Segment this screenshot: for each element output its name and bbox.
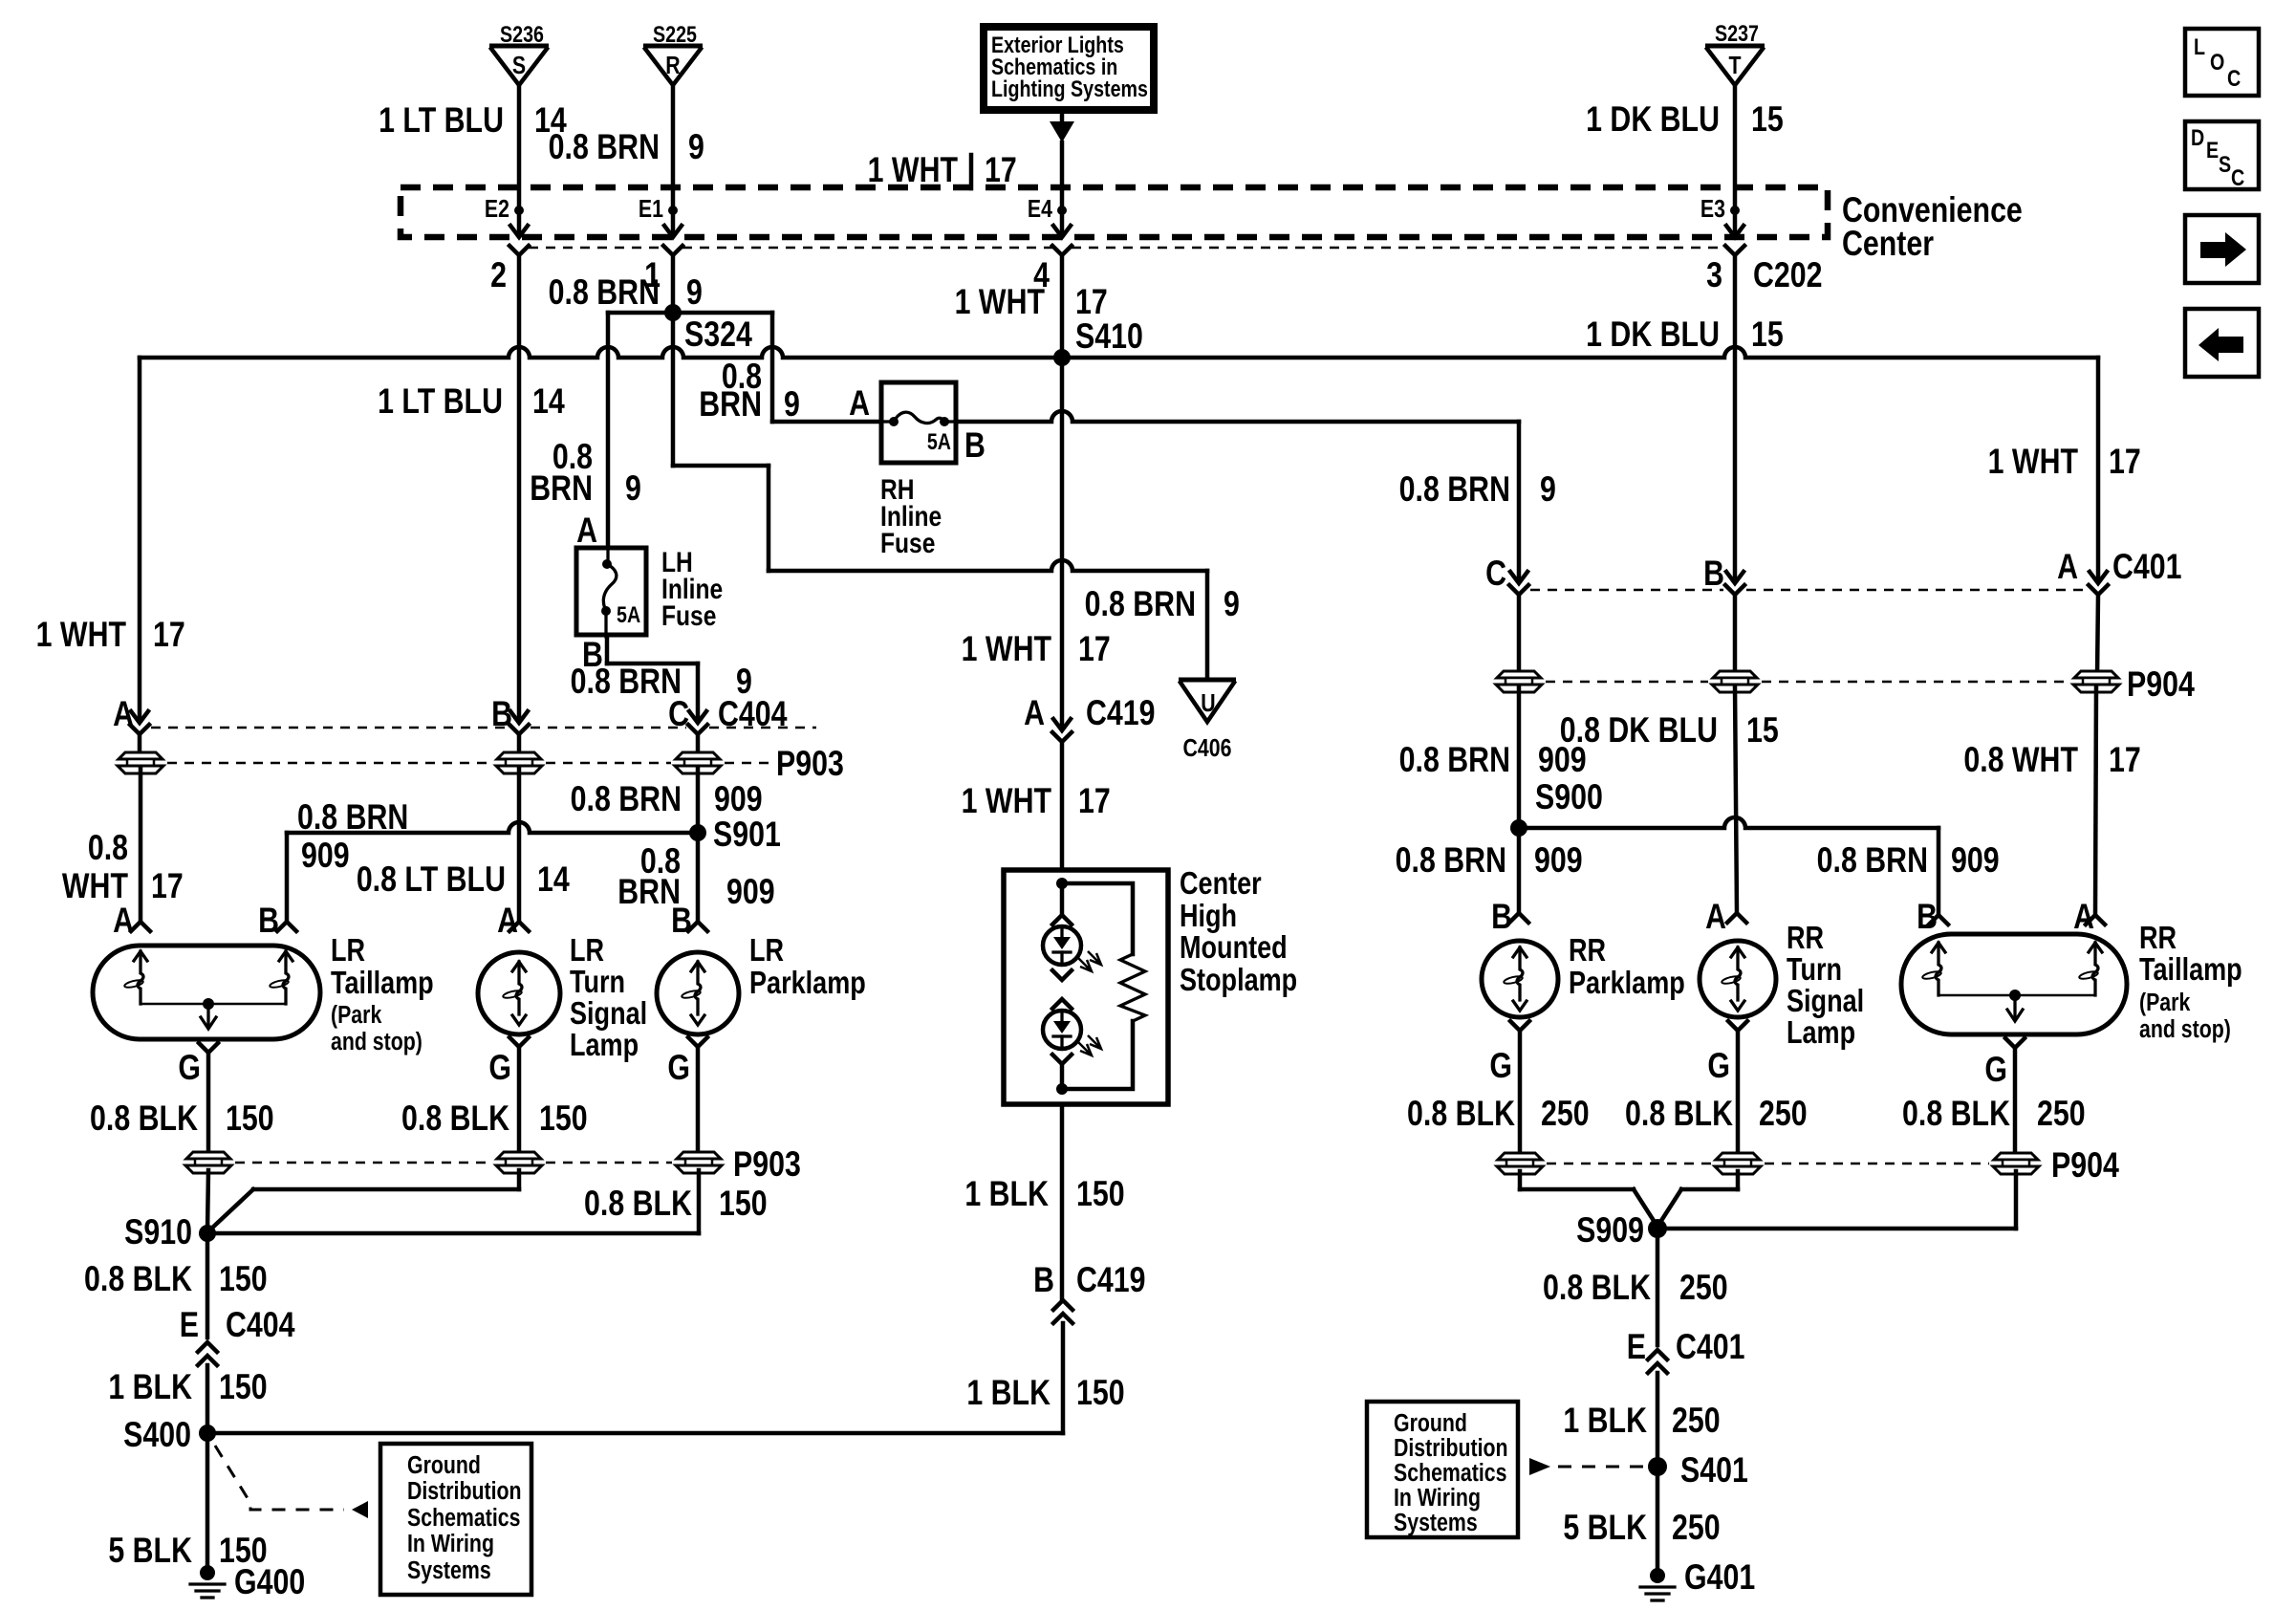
svg-text:Taillamp: Taillamp (2139, 953, 2242, 988)
svg-text:Mounted: Mounted (1180, 931, 1288, 966)
wire WHT to RR tail A (2095, 685, 2096, 915)
svg-text:Signal: Signal (570, 997, 647, 1032)
svg-text:0.8 BRN: 0.8 BRN (1085, 584, 1196, 624)
svg-text:250: 250 (1679, 1268, 1728, 1308)
wire S400 ground run (207, 1431, 1063, 1436)
svg-text:0.8 BRN: 0.8 BRN (1396, 840, 1506, 881)
svg-text:14: 14 (532, 381, 565, 422)
svg-text:0.8 BLK: 0.8 BLK (90, 1099, 198, 1139)
svg-text:1 WHT: 1 WHT (962, 629, 1052, 669)
svg-text:9: 9 (625, 468, 641, 509)
svg-text:150: 150 (539, 1099, 588, 1139)
wire LR park gnd jog (697, 1170, 702, 1233)
wire RR park gnd jog (1518, 1171, 1523, 1189)
svg-text:Fuse: Fuse (880, 527, 935, 559)
svg-text:17: 17 (1078, 629, 1111, 669)
splice S900 (1510, 819, 1527, 837)
wire WHT to LR taillamp A (139, 769, 143, 922)
svg-text:14: 14 (537, 859, 570, 900)
svg-text:1 LT BLU: 1 LT BLU (379, 100, 504, 141)
svg-text:250: 250 (1672, 1401, 1721, 1441)
svg-text:Schematics: Schematics (407, 1504, 520, 1533)
svg-text:0.8 BLK: 0.8 BLK (1902, 1094, 2010, 1134)
CHMSL resistor branch (1062, 883, 1133, 954)
grommet P903 B (496, 752, 542, 773)
svg-text:C401: C401 (1676, 1327, 1745, 1367)
svg-text:9: 9 (784, 384, 800, 424)
splice S410 (1053, 349, 1071, 366)
svg-text:C401: C401 (2112, 547, 2182, 587)
svg-text:15: 15 (1751, 315, 1784, 355)
svg-text:S909: S909 (1576, 1210, 1644, 1251)
svg-text:1 DK BLU: 1 DK BLU (1586, 99, 1720, 140)
svg-text:0.8 BLK: 0.8 BLK (1543, 1268, 1651, 1308)
svg-text:150: 150 (219, 1259, 268, 1299)
svg-text:0.8 BRN: 0.8 BRN (1817, 840, 1928, 881)
wire BRN to S900 (1517, 685, 1522, 826)
wire WHT E4 down to C419-A (1060, 255, 1065, 356)
grommet P904 tail gnd (1993, 1153, 2039, 1174)
svg-text:G401: G401 (1684, 1557, 1755, 1598)
svg-text:C419: C419 (1076, 1260, 1146, 1300)
svg-text:B: B (1703, 554, 1724, 594)
legend LOC box (2185, 29, 2259, 96)
svg-text:0.8 BRN: 0.8 BRN (571, 662, 682, 702)
svg-text:1 BLK: 1 BLK (1563, 1401, 1647, 1441)
svg-text:S237: S237 (1715, 20, 1759, 46)
svg-text:B: B (671, 901, 692, 941)
svg-text:17: 17 (151, 866, 184, 906)
lamp LR Taillamp right bulb (279, 951, 292, 961)
svg-text:0.8 BLK: 0.8 BLK (1625, 1094, 1733, 1134)
wire S901 down to LR parklamp (696, 835, 701, 922)
fuse RH inline 5A (881, 382, 956, 463)
svg-text:909: 909 (1538, 740, 1587, 780)
wire RR turn gnd jog (1736, 1171, 1741, 1189)
ground G401 (1650, 1568, 1665, 1583)
triangle connector S236 (S) (489, 44, 549, 49)
wire CHMSL gnd down (1060, 1104, 1065, 1298)
svg-text:High: High (1180, 900, 1237, 934)
svg-text:17: 17 (2109, 740, 2141, 780)
wire WHT bus (140, 347, 2098, 358)
connector C202 chevron pin 1 (663, 246, 682, 255)
svg-text:B: B (1033, 1260, 1054, 1300)
svg-text:(Park: (Park (331, 1001, 382, 1030)
svg-text:In Wiring: In Wiring (407, 1530, 494, 1558)
svg-text:0.8 BLK: 0.8 BLK (584, 1184, 692, 1224)
svg-text:1 WHT: 1 WHT (962, 781, 1052, 821)
svg-text:and stop): and stop) (331, 1028, 422, 1056)
wire A to grommet (138, 734, 142, 757)
reference dashed arrow (left) (215, 1446, 344, 1510)
svg-text:Turn: Turn (1787, 953, 1842, 988)
svg-text:S225: S225 (653, 21, 697, 47)
grommet P903 tail gnd (185, 1152, 231, 1173)
svg-text:0.8 BLK: 0.8 BLK (1407, 1094, 1515, 1134)
lamp RR Taillamp right bulb (2089, 943, 2102, 952)
svg-text:S910: S910 (124, 1212, 192, 1252)
CHMSL mid chevrons (1052, 970, 1072, 980)
wire S900 down to RR park (1517, 830, 1522, 913)
svg-text:A: A (113, 901, 134, 941)
wire C401-B to grommet (1733, 595, 1738, 677)
svg-text:Distribution: Distribution (407, 1477, 522, 1506)
wire S324 right branch down (770, 313, 775, 422)
wire LH fuse output (605, 635, 610, 664)
svg-text:S900: S900 (1535, 777, 1603, 817)
lamp RR Parklamp (1482, 941, 1558, 1017)
svg-text:A: A (1024, 693, 1045, 733)
svg-text:C: C (2227, 65, 2241, 91)
svg-text:250: 250 (2037, 1094, 2086, 1134)
triangle connector S237 (T) (1705, 44, 1765, 49)
Convenience Center box (401, 187, 1828, 237)
svg-text:909: 909 (1951, 840, 2000, 881)
svg-text:17: 17 (985, 150, 1017, 190)
pin chevron RR tail A (2086, 915, 2105, 925)
wire WHT to CHMSL (1060, 742, 1065, 866)
svg-text:Systems: Systems (407, 1556, 491, 1585)
svg-text:150: 150 (1076, 1174, 1125, 1214)
pin chevron LR taillamp A (131, 922, 150, 931)
legend right arrow box (2185, 215, 2259, 283)
Ground Distribution box (left) (380, 1444, 531, 1595)
svg-text:Stoplamp: Stoplamp (1180, 964, 1297, 998)
wire C to grommet (696, 734, 701, 757)
svg-text:Systems: Systems (1394, 1509, 1478, 1537)
svg-text:1 BLK: 1 BLK (966, 1373, 1051, 1413)
wire LR tail gnd to S910 (207, 1170, 208, 1231)
lamp RR Taillamp common (1939, 994, 2095, 997)
svg-text:Parklamp: Parklamp (749, 967, 866, 1001)
svg-text:L: L (2194, 33, 2205, 59)
pin chevron LR parklamp G (688, 1037, 707, 1047)
svg-text:Turn: Turn (570, 966, 625, 1000)
svg-text:250: 250 (1759, 1094, 1808, 1134)
CHMSL LED 2 (1043, 1011, 1081, 1049)
Ground Distribution box (right) (1367, 1402, 1518, 1537)
grommet P904 park gnd (1497, 1153, 1543, 1174)
Exterior Lights Schematics reference box (984, 27, 1154, 110)
CHMSL top node (1056, 878, 1068, 889)
svg-text:LR: LR (749, 934, 784, 968)
wire S909 down (1656, 1229, 1660, 1345)
svg-text:0.8 BRN: 0.8 BRN (571, 779, 682, 819)
svg-text:3: 3 (1706, 255, 1722, 295)
svg-text:S400: S400 (123, 1415, 191, 1455)
svg-text:0.8 BLK: 0.8 BLK (84, 1259, 192, 1299)
svg-text:G: G (1489, 1046, 1512, 1086)
wire LR turn gnd jog (517, 1170, 522, 1189)
svg-text:Center: Center (1180, 867, 1262, 902)
svg-text:Signal: Signal (1787, 985, 1864, 1019)
connector C202 chevron pin 2 (509, 246, 529, 255)
pin chevron RR park B (1509, 913, 1528, 923)
svg-text:P903: P903 (733, 1144, 801, 1185)
svg-text:150: 150 (719, 1184, 768, 1224)
svg-text:U: U (1201, 689, 1215, 718)
svg-text:C404: C404 (226, 1305, 295, 1345)
svg-text:5A: 5A (617, 601, 640, 627)
svg-text:150: 150 (219, 1367, 268, 1407)
svg-text:BRN: BRN (699, 384, 762, 424)
svg-text:250: 250 (1672, 1508, 1721, 1548)
svg-text:909: 909 (301, 836, 350, 876)
wire S400 down to G400 (206, 1433, 210, 1567)
connector C401 dashed line (1530, 589, 1723, 592)
wire S900 crossbar (1519, 817, 1939, 828)
svg-text:9: 9 (688, 127, 704, 167)
svg-text:E4: E4 (1028, 195, 1053, 224)
wire C401-A to grommet (2097, 595, 2098, 677)
svg-text:1 WHT: 1 WHT (868, 150, 959, 190)
wire WHT left branch down (138, 358, 142, 721)
svg-text:O: O (2210, 49, 2224, 75)
svg-text:E3: E3 (1700, 195, 1725, 224)
CHMSL bottom chevron (1052, 1055, 1072, 1064)
svg-text:A: A (1705, 897, 1726, 937)
svg-text:A: A (497, 901, 518, 941)
splice S324 (664, 304, 682, 321)
wire WHT right branch down (2096, 358, 2101, 581)
svg-text:B: B (964, 425, 986, 466)
svg-text:LR: LR (331, 934, 365, 968)
grommet P904 turn gnd (1715, 1153, 1761, 1174)
pin chevron RR tail B (1929, 915, 1948, 925)
wire S225 down to S324 (671, 255, 676, 466)
svg-text:S901: S901 (713, 815, 781, 855)
wire S324 left branch down to LH fuse (606, 313, 611, 547)
svg-text:1 WHT: 1 WHT (1988, 442, 2079, 482)
svg-text:Lamp: Lamp (1787, 1016, 1855, 1051)
svg-text:17: 17 (153, 615, 185, 655)
lamp RR Taillamp body (1901, 934, 2127, 1034)
svg-text:1 BLK: 1 BLK (964, 1174, 1049, 1214)
splice S910 (199, 1225, 216, 1242)
connector P903 dashed line (lower) (235, 1162, 492, 1164)
triangle connector S225 (R) (643, 44, 703, 49)
grommet P903 turn gnd (496, 1152, 542, 1173)
svg-text:A: A (2057, 547, 2078, 587)
grommet P903 A (118, 752, 163, 773)
pin chevron LR taillamp B (277, 922, 296, 931)
wire BRN C404-C to S901 (696, 769, 701, 831)
svg-text:A: A (849, 383, 870, 424)
svg-text:Center: Center (1842, 224, 1934, 264)
svg-text:P904: P904 (2051, 1145, 2119, 1186)
svg-text:0.8: 0.8 (88, 828, 128, 868)
svg-text:C406: C406 (1183, 734, 1232, 763)
wire S225 down to E1 (671, 85, 676, 207)
svg-text:0.8 BRN: 0.8 BRN (297, 797, 408, 838)
grommet P904 C (1496, 671, 1542, 692)
svg-text:0.8 BRN: 0.8 BRN (1399, 469, 1510, 510)
grommet P903 park gnd (676, 1152, 722, 1173)
svg-text:S401: S401 (1680, 1450, 1748, 1490)
svg-text:S236: S236 (500, 21, 544, 47)
connector P904 dashed line (lower) (1547, 1163, 1711, 1165)
svg-text:17: 17 (2109, 442, 2141, 482)
svg-text:LR: LR (570, 934, 604, 968)
wire S901 crossbar (287, 822, 698, 833)
lamp LR Parklamp (657, 952, 739, 1034)
svg-text:909: 909 (1534, 840, 1583, 881)
svg-text:150: 150 (226, 1099, 274, 1139)
svg-text:D: D (2191, 124, 2204, 150)
svg-text:9: 9 (1224, 584, 1240, 624)
CHMSL led chain top (1060, 889, 1065, 915)
svg-text:RR: RR (1569, 934, 1606, 968)
wire RR tail gnd jog (2014, 1171, 2019, 1229)
lamp LR Taillamp left bulb (134, 951, 147, 961)
legend DESC box (2185, 121, 2259, 189)
svg-text:S410: S410 (1075, 316, 1143, 357)
connector C202 chevron pin 4 (1052, 246, 1072, 255)
svg-text:S: S (2219, 151, 2231, 177)
lamp LR Taillamp common (141, 1003, 286, 1006)
wire E4 feed (1060, 142, 1065, 207)
lamp RR Turn Signal (1700, 941, 1776, 1017)
svg-text:A: A (576, 511, 597, 551)
svg-text:Lamp: Lamp (570, 1029, 639, 1063)
grommet P903 C (675, 752, 721, 773)
wire S910 down (206, 1233, 210, 1338)
pin chevron RR turn A (1727, 913, 1746, 923)
svg-text:5 BLK: 5 BLK (1563, 1508, 1647, 1548)
svg-text:S324: S324 (684, 315, 752, 355)
lamp RR Taillamp left bulb (1932, 943, 1945, 952)
svg-text:RR: RR (2139, 922, 2177, 956)
svg-text:E: E (180, 1305, 199, 1345)
svg-text:B: B (258, 901, 279, 941)
svg-text:9: 9 (1540, 469, 1556, 510)
svg-text:C202: C202 (1753, 255, 1823, 295)
CHMSL LED 1 (1043, 926, 1081, 965)
wire S324 crossbar (608, 311, 772, 315)
svg-text:1 BLK: 1 BLK (108, 1367, 192, 1407)
wire RH fuse output to C401-C (956, 411, 1519, 422)
svg-text:R: R (665, 52, 680, 80)
svg-text:C: C (2231, 164, 2244, 190)
svg-text:1 WHT: 1 WHT (36, 615, 127, 655)
svg-text:P904: P904 (2127, 664, 2195, 705)
svg-text:9: 9 (686, 272, 703, 313)
svg-text:0.8 BRN: 0.8 BRN (1399, 740, 1510, 780)
pin chevron RR tail G (2005, 1038, 2025, 1048)
svg-text:and stop): and stop) (2139, 1015, 2231, 1044)
svg-text:E: E (2206, 137, 2219, 163)
svg-text:RR: RR (1787, 922, 1824, 956)
connector P904 dashed line (1546, 681, 1708, 684)
pin chevron RR park G (1510, 1021, 1529, 1031)
svg-text:G: G (488, 1048, 511, 1088)
splice S400 (199, 1425, 216, 1442)
svg-text:1 WHT: 1 WHT (955, 282, 1046, 322)
svg-text:1 LT BLU: 1 LT BLU (378, 381, 503, 422)
svg-text:Parklamp: Parklamp (1569, 967, 1685, 1001)
svg-text:C: C (1485, 554, 1506, 594)
connector C404 dashed line (151, 727, 508, 729)
svg-text:Ground: Ground (407, 1451, 481, 1480)
svg-text:T: T (1728, 52, 1741, 80)
CHMSL bottom node (1056, 1083, 1068, 1095)
svg-text:B: B (1491, 897, 1512, 937)
wire S324 right branch to RH fuse (772, 420, 879, 424)
svg-text:17: 17 (1078, 781, 1111, 821)
svg-text:15: 15 (1751, 99, 1784, 140)
svg-text:G: G (1707, 1046, 1730, 1086)
wire C401-C to grommet (1517, 595, 1522, 677)
lamp LR Turn Signal (478, 952, 560, 1034)
ground G400 (200, 1565, 215, 1580)
svg-text:E: E (1627, 1327, 1646, 1367)
wire DK BLU to RR turn (1735, 685, 1737, 913)
svg-text:0.8 WHT: 0.8 WHT (1963, 740, 2078, 780)
svg-text:E2: E2 (485, 195, 509, 224)
wire S401 down to G401 (1656, 1467, 1660, 1570)
grommet P904 A (2073, 671, 2119, 692)
pin chevron LR turn A (509, 922, 529, 931)
svg-text:C419: C419 (1086, 693, 1156, 733)
wire DK BLU down to C401-B (1733, 255, 1738, 581)
pin chevron LR parklamp B (688, 922, 707, 931)
wire B to grommet (517, 734, 522, 757)
svg-text:5A: 5A (927, 428, 951, 454)
pin chevron LR turn G (509, 1037, 529, 1047)
wire S237 down to E3 (1733, 85, 1738, 207)
svg-text:0.8 BRN: 0.8 BRN (549, 272, 660, 313)
svg-text:0.8 BLK: 0.8 BLK (401, 1099, 509, 1139)
pin chevron LR taillamp G (199, 1043, 218, 1053)
svg-text:Fuse: Fuse (661, 599, 716, 632)
fuse LH inline 5A (576, 548, 646, 635)
svg-text:(Park: (Park (2139, 989, 2191, 1017)
reference dashed arrow (right) (1529, 1458, 1550, 1475)
pin chevron RR turn G (1728, 1021, 1747, 1031)
svg-text:G400: G400 (234, 1562, 305, 1602)
svg-text:15: 15 (1746, 710, 1779, 751)
svg-text:909: 909 (714, 779, 763, 819)
svg-text:2: 2 (490, 255, 507, 295)
wire LT BLU C202-2 down (517, 255, 522, 721)
svg-text:0.8 BRN: 0.8 BRN (549, 127, 660, 167)
grommet P904 B (1712, 671, 1758, 692)
svg-text:Lighting Systems: Lighting Systems (991, 76, 1148, 101)
svg-text:E1: E1 (639, 195, 663, 224)
triangle connector C406 (U) (1179, 678, 1236, 683)
svg-text:P903: P903 (776, 744, 844, 784)
svg-text:909: 909 (726, 872, 775, 912)
svg-text:1 DK BLU: 1 DK BLU (1586, 315, 1720, 355)
svg-text:G: G (178, 1048, 201, 1088)
wire S236 down to E2 (517, 85, 522, 207)
svg-text:G: G (1984, 1050, 2007, 1090)
wire LT BLU to LR turn lamp (517, 769, 522, 922)
svg-text:S: S (512, 52, 526, 80)
svg-text:150: 150 (1076, 1373, 1125, 1413)
lamp Center High Mounted Stoplamp box (1004, 870, 1168, 1104)
splice S909 (1648, 1219, 1667, 1238)
svg-text:0.8 LT BLU: 0.8 LT BLU (357, 859, 506, 900)
svg-text:Taillamp: Taillamp (331, 967, 434, 1001)
filled arrow from Exterior Lights box (1060, 114, 1065, 122)
splice S401 (1648, 1457, 1667, 1476)
svg-text:250: 250 (1541, 1094, 1590, 1134)
wire S901 left branch down (285, 833, 290, 922)
svg-text:BRN: BRN (530, 468, 593, 509)
svg-text:5 BLK: 5 BLK (108, 1531, 192, 1571)
